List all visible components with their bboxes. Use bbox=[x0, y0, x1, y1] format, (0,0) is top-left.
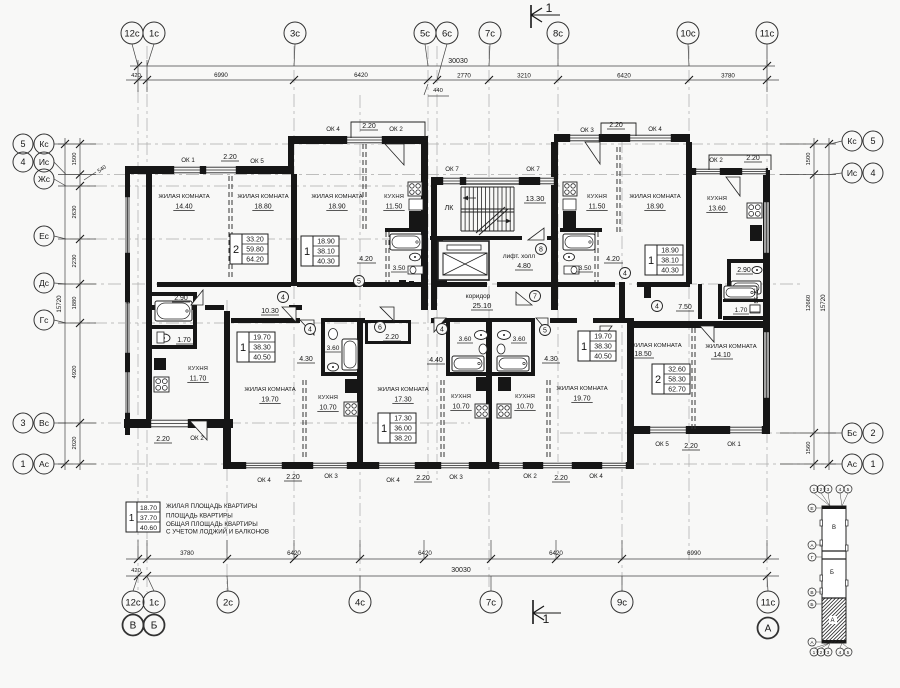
svg-text:4.30: 4.30 bbox=[544, 356, 558, 363]
svg-text:5: 5 bbox=[357, 278, 361, 285]
svg-text:13.60: 13.60 bbox=[708, 206, 725, 213]
wall step 2c bbox=[223, 428, 231, 469]
svg-text:2: 2 bbox=[820, 650, 823, 656]
svg-text:лифт. холл: лифт. холл bbox=[503, 253, 535, 260]
svg-text:6420: 6420 bbox=[418, 550, 432, 557]
window OK2 bottom left bbox=[149, 419, 190, 428]
apartment table 2: 32.60/58.30/62.70 bbox=[652, 364, 664, 394]
upper bath block right (4.20/3.50 mirror) bbox=[560, 228, 623, 282]
svg-text:2.20: 2.20 bbox=[385, 334, 399, 341]
wall 9c interior bbox=[619, 282, 625, 322]
svg-text:5с: 5с bbox=[420, 28, 430, 39]
flat circle 4 bbox=[652, 301, 663, 312]
svg-text:А: А bbox=[810, 640, 814, 646]
svg-text:4: 4 bbox=[839, 650, 842, 656]
svg-text:1500: 1500 bbox=[72, 153, 78, 166]
door apt2 hall-room bbox=[300, 320, 314, 335]
sink WC bbox=[158, 334, 170, 342]
window stair OK7 wide bbox=[464, 177, 521, 185]
svg-text:4920: 4920 bbox=[72, 366, 78, 379]
svg-text:ОК 7: ОК 7 bbox=[445, 166, 459, 173]
wall bottom left section bbox=[124, 419, 233, 428]
svg-text:ОК 2: ОК 2 bbox=[190, 435, 204, 442]
lift shaft bbox=[438, 241, 489, 280]
svg-text:4: 4 bbox=[839, 487, 842, 493]
svg-text:Жс: Жс bbox=[38, 174, 51, 184]
wall 10c bbox=[686, 142, 692, 284]
svg-text:Б: Б bbox=[830, 570, 834, 576]
svg-text:10.70: 10.70 bbox=[516, 404, 533, 411]
window OK1 bottom right bbox=[728, 426, 764, 434]
apt5 bath vertical bbox=[718, 284, 722, 319]
svg-text:4: 4 bbox=[870, 168, 875, 178]
svg-text:1: 1 bbox=[870, 459, 875, 469]
svg-text:13.30: 13.30 bbox=[526, 194, 545, 203]
room labels lower floor bbox=[187, 304, 756, 412]
svg-text:ОК 3: ОК 3 bbox=[449, 474, 463, 481]
svg-text:2: 2 bbox=[655, 374, 661, 386]
svg-text:2.20: 2.20 bbox=[554, 475, 568, 482]
svg-text:1: 1 bbox=[581, 341, 587, 353]
wall bay1 left side bbox=[288, 136, 294, 174]
kitchen 11.50 right fixtures bbox=[563, 182, 577, 231]
room labels upper floor bbox=[158, 194, 727, 310]
wall bay2 top bbox=[554, 134, 690, 142]
svg-text:5: 5 bbox=[847, 650, 850, 656]
apt4 kitchen fixtures bbox=[497, 377, 511, 418]
bathtub 2.90 bbox=[155, 301, 192, 321]
svg-text:15720: 15720 bbox=[56, 295, 63, 313]
wall top right section bbox=[690, 168, 767, 175]
dim 540 note bbox=[84, 172, 96, 180]
svg-text:2.90: 2.90 bbox=[737, 267, 751, 274]
left overall dimension 15720 bbox=[56, 138, 108, 470]
svg-text:19.70: 19.70 bbox=[261, 397, 278, 404]
svg-text:40.50: 40.50 bbox=[594, 353, 612, 360]
svg-text:ЖИЛАЯ КОМНАТА: ЖИЛАЯ КОМНАТА bbox=[244, 387, 295, 393]
apartment table 1: 19.70/38.30/40.50 left bbox=[237, 332, 249, 362]
svg-text:1500: 1500 bbox=[806, 153, 812, 166]
wall 3c interior bbox=[291, 174, 297, 286]
axis circles top bbox=[121, 22, 778, 80]
svg-text:1: 1 bbox=[546, 1, 553, 15]
door right balcony bbox=[726, 177, 740, 196]
axis grid lines bbox=[60, 46, 835, 592]
svg-text:ЖИЛАЯ КОМНАТА: ЖИЛАЯ КОМНАТА bbox=[705, 344, 756, 350]
window OK2 right a bbox=[694, 168, 722, 175]
flat circle 4 bbox=[620, 268, 631, 279]
upper bath block left (4.20/3.50) bbox=[357, 228, 427, 282]
kitchen 13.60 fixtures bbox=[747, 203, 762, 241]
bathtub bbox=[731, 281, 761, 294]
wall stair front bbox=[437, 177, 558, 185]
window labels bottom bbox=[154, 435, 741, 484]
svg-text:ОК 7: ОК 7 bbox=[526, 166, 540, 173]
svg-text:6990: 6990 bbox=[214, 72, 228, 79]
svg-text:4: 4 bbox=[623, 270, 627, 277]
apt3 bath block bbox=[446, 318, 489, 376]
svg-text:Ас: Ас bbox=[39, 459, 50, 469]
svg-text:4.80: 4.80 bbox=[517, 263, 531, 270]
svg-text:5: 5 bbox=[543, 327, 547, 334]
svg-text:Дс: Дс bbox=[39, 278, 50, 288]
svg-text:А: А bbox=[830, 618, 834, 624]
toilet bbox=[408, 266, 423, 274]
svg-text:1: 1 bbox=[813, 487, 816, 493]
svg-text:6: 6 bbox=[378, 324, 382, 331]
svg-text:3780: 3780 bbox=[721, 73, 735, 80]
svg-text:5: 5 bbox=[20, 139, 25, 149]
strip slab lines bbox=[822, 550, 846, 552]
svg-text:38.20: 38.20 bbox=[394, 435, 412, 442]
svg-text:8: 8 bbox=[539, 246, 543, 253]
svg-text:1560: 1560 bbox=[806, 442, 812, 455]
window left loggia a bbox=[125, 195, 130, 255]
svg-text:2.20: 2.20 bbox=[223, 154, 237, 161]
window OK5 bbox=[204, 166, 238, 174]
svg-text:3.50: 3.50 bbox=[393, 265, 406, 272]
svg-text:40.30: 40.30 bbox=[661, 267, 679, 274]
svg-text:ОК 2: ОК 2 bbox=[389, 126, 403, 133]
flat circle 4 bbox=[305, 324, 316, 335]
svg-text:4.30: 4.30 bbox=[299, 356, 313, 363]
svg-text:2020: 2020 bbox=[72, 437, 78, 450]
door frame blobs bbox=[399, 280, 406, 287]
partition kitchen/18.90 right bbox=[616, 147, 618, 235]
strip outline bbox=[822, 506, 846, 643]
svg-text:ЖИЛАЯ КОМНАТА: ЖИЛАЯ КОМНАТА bbox=[158, 194, 209, 200]
apt5 rooms top wall bbox=[627, 321, 767, 328]
flat number circles bbox=[278, 244, 663, 336]
flat circle 4 bbox=[278, 292, 289, 303]
svg-text:1.70: 1.70 bbox=[735, 307, 748, 314]
windows top walls bbox=[172, 134, 768, 189]
svg-text:4: 4 bbox=[308, 326, 312, 333]
svg-text:7с: 7с bbox=[485, 28, 495, 39]
flat circle 4 bbox=[437, 324, 448, 335]
right overall dimension 15720 bbox=[828, 138, 830, 470]
partition room/kitchen apt2 bbox=[302, 380, 304, 460]
wall 6c stair left bbox=[431, 177, 437, 310]
bathtub bbox=[390, 234, 422, 250]
svg-text:33.20: 33.20 bbox=[246, 236, 264, 243]
wall left outer bbox=[125, 169, 130, 435]
svg-text:3.60: 3.60 bbox=[459, 336, 472, 343]
apartment table 1: 19.70/38.30/40.50 right bbox=[578, 331, 590, 361]
svg-text:38.10: 38.10 bbox=[317, 248, 335, 255]
svg-text:А: А bbox=[810, 543, 814, 549]
door apt5 entry bbox=[536, 318, 548, 332]
svg-text:1: 1 bbox=[543, 612, 550, 626]
svg-text:ОК 1: ОК 1 bbox=[727, 441, 741, 448]
svg-text:ОК 4: ОК 4 bbox=[257, 477, 271, 484]
svg-text:Кс: Кс bbox=[847, 136, 857, 146]
wall right outer 11c bbox=[763, 170, 770, 434]
strip hatch A zone bbox=[780, 598, 900, 643]
door apt3 entry bbox=[380, 307, 394, 321]
wall 7c interior bbox=[486, 318, 492, 465]
svg-text:2.90: 2.90 bbox=[174, 295, 188, 302]
svg-text:19.70: 19.70 bbox=[594, 333, 612, 340]
svg-text:ОК 4: ОК 4 bbox=[326, 126, 340, 133]
svg-text:КУХНЯ: КУХНЯ bbox=[384, 194, 404, 200]
stairwell ЛК bbox=[437, 185, 551, 282]
bathtub vertical bbox=[342, 339, 358, 370]
apt5 hall vertical bbox=[698, 284, 702, 319]
svg-text:Ес: Ес bbox=[39, 231, 50, 241]
toilet bbox=[329, 329, 338, 340]
svg-text:19.70: 19.70 bbox=[253, 334, 271, 341]
svg-text:1: 1 bbox=[20, 459, 25, 469]
svg-text:ЖИЛАЯ КОМНАТА: ЖИЛАЯ КОМНАТА bbox=[630, 343, 681, 349]
svg-text:ОК 3: ОК 3 bbox=[580, 127, 594, 134]
wall 4c interior bbox=[357, 318, 363, 465]
door bay1 balcony bbox=[385, 144, 404, 165]
sink bbox=[328, 363, 339, 371]
svg-text:БС "Б": БС "Б" bbox=[754, 288, 760, 303]
svg-text:18.70: 18.70 bbox=[140, 505, 157, 512]
svg-text:ЛК: ЛК bbox=[445, 205, 455, 212]
svg-text:В: В bbox=[130, 621, 137, 632]
svg-text:ЖИЛАЯ КОМНАТА: ЖИЛАЯ КОМНАТА bbox=[311, 194, 362, 200]
partition 18.50/14.10 bbox=[691, 328, 693, 430]
svg-text:ЖИЛАЯ КОМНАТА: ЖИЛАЯ КОМНАТА bbox=[377, 387, 428, 393]
strip circles bottom bbox=[810, 648, 818, 656]
stair window sill bbox=[466, 185, 519, 189]
svg-text:40.30: 40.30 bbox=[317, 258, 335, 265]
stair treads bbox=[460, 187, 462, 231]
svg-text:11с: 11с bbox=[760, 28, 775, 39]
svg-text:В: В bbox=[832, 525, 836, 531]
svg-text:17.30: 17.30 bbox=[394, 397, 411, 404]
svg-text:БС "В": БС "В" bbox=[126, 288, 132, 303]
wall step 9c bbox=[627, 426, 634, 469]
svg-text:ОК 2: ОК 2 bbox=[709, 157, 723, 164]
svg-text:14.10: 14.10 bbox=[713, 352, 730, 359]
svg-text:2.20: 2.20 bbox=[746, 155, 760, 162]
svg-text:15720: 15720 bbox=[820, 294, 827, 312]
svg-text:62.70: 62.70 bbox=[668, 386, 686, 393]
svg-text:1: 1 bbox=[648, 255, 654, 267]
svg-text:Е: Е bbox=[810, 506, 813, 512]
svg-text:4: 4 bbox=[440, 326, 444, 333]
window bay1 bbox=[345, 136, 384, 144]
window labels top bbox=[181, 122, 762, 173]
section mark 1 top bbox=[531, 1, 560, 28]
right section bath 2.90 bbox=[723, 259, 767, 326]
svg-text:38.30: 38.30 bbox=[253, 344, 271, 351]
svg-text:3780: 3780 bbox=[180, 550, 194, 557]
wall 8c stair right bbox=[551, 142, 558, 310]
door apt2 entry bbox=[282, 307, 296, 322]
door loggia bottom left bbox=[190, 421, 207, 440]
window stair OK7 b bbox=[538, 177, 556, 185]
svg-text:58.30: 58.30 bbox=[668, 376, 686, 383]
window right loggia a bbox=[764, 200, 769, 255]
svg-text:В: В bbox=[810, 590, 813, 596]
right segment dimensions bbox=[780, 138, 836, 470]
apt5 bathtub near corridor bbox=[724, 286, 760, 312]
svg-text:11.50: 11.50 bbox=[386, 204, 403, 211]
svg-text:ЖИЛАЯ КОМНАТА: ЖИЛАЯ КОМНАТА bbox=[629, 194, 680, 200]
stove bbox=[154, 377, 169, 392]
svg-text:1: 1 bbox=[240, 342, 246, 354]
flat circle 7 bbox=[530, 291, 541, 302]
corridor lower wall bbox=[148, 305, 196, 310]
balcony outline bay1 bbox=[351, 122, 425, 138]
sink box bbox=[154, 358, 166, 370]
svg-text:2.20: 2.20 bbox=[156, 436, 170, 443]
svg-text:18.90: 18.90 bbox=[328, 204, 345, 211]
svg-text:2: 2 bbox=[233, 244, 239, 256]
building outer walls bbox=[124, 134, 770, 469]
wall top left section bbox=[125, 166, 294, 174]
svg-text:1.70: 1.70 bbox=[177, 337, 191, 344]
door corridor 7 bbox=[516, 292, 532, 305]
svg-text:КУХНЯ: КУХНЯ bbox=[188, 366, 208, 372]
apt1 kitchen 11.70 fixtures bbox=[154, 358, 169, 392]
flat circle 5 bbox=[540, 325, 551, 336]
sink bbox=[475, 331, 488, 340]
vent boxes bbox=[738, 321, 744, 326]
partition room/kitchen apt3 bbox=[440, 380, 442, 460]
svg-text:1с: 1с bbox=[149, 597, 159, 608]
svg-text:6с: 6с bbox=[442, 28, 452, 39]
apt5 toilet bbox=[750, 305, 760, 312]
kitchen 11.50 left fixtures bbox=[408, 182, 423, 231]
top segment dimension line bbox=[126, 79, 779, 81]
svg-text:ОК 2: ОК 2 bbox=[523, 473, 537, 480]
windows bottom walls bbox=[149, 419, 764, 469]
svg-text:1с: 1с bbox=[149, 28, 159, 39]
svg-text:18.50: 18.50 bbox=[634, 351, 651, 358]
partition 14.40/18.80 bbox=[228, 176, 230, 280]
svg-text:3с: 3с bbox=[290, 28, 300, 39]
svg-text:25.10: 25.10 bbox=[473, 301, 492, 310]
svg-text:7.50: 7.50 bbox=[678, 304, 692, 311]
svg-text:40.50: 40.50 bbox=[253, 354, 271, 361]
bottom segment dimension line bbox=[126, 540, 779, 591]
apt2 kitchen fixtures bbox=[344, 379, 358, 416]
svg-text:4.40: 4.40 bbox=[429, 357, 443, 364]
svg-text:Г: Г bbox=[811, 555, 814, 561]
svg-text:440: 440 bbox=[433, 88, 443, 94]
svg-text:ОК 4: ОК 4 bbox=[589, 473, 603, 480]
door room 18.50 bbox=[600, 326, 612, 342]
apt4 bath block bbox=[492, 318, 535, 376]
svg-text:4: 4 bbox=[655, 303, 659, 310]
svg-text:12с: 12с bbox=[124, 28, 140, 39]
svg-text:4: 4 bbox=[20, 157, 25, 167]
svg-text:2770: 2770 bbox=[457, 73, 471, 80]
dim 440 note bbox=[424, 84, 428, 95]
svg-text:С УЧЕТОМ ЛОДЖИЙ И БАЛКОНОВ: С УЧЕТОМ ЛОДЖИЙ И БАЛКОНОВ bbox=[166, 528, 269, 536]
svg-text:2: 2 bbox=[820, 487, 823, 493]
apartment table 2: 33.20/59.80/64.20 bbox=[230, 234, 242, 264]
svg-text:ЖИЛАЯ КОМНАТА: ЖИЛАЯ КОМНАТА bbox=[237, 194, 288, 200]
svg-text:2.20: 2.20 bbox=[286, 474, 300, 481]
window bottom 1 bbox=[244, 462, 284, 469]
flat circle 8 bbox=[536, 244, 547, 255]
svg-text:2230: 2230 bbox=[72, 255, 78, 268]
balcony outline right bbox=[709, 155, 771, 170]
toilet bbox=[564, 266, 579, 274]
svg-text:32.60: 32.60 bbox=[668, 366, 686, 373]
svg-text:2.20: 2.20 bbox=[609, 122, 623, 129]
svg-text:3: 3 bbox=[827, 487, 830, 493]
svg-text:18.90: 18.90 bbox=[317, 238, 335, 245]
svg-text:КУХНЯ: КУХНЯ bbox=[515, 394, 535, 400]
wall bay1 right side / 5c bbox=[421, 136, 428, 310]
svg-text:2: 2 bbox=[870, 428, 875, 438]
svg-text:37.70: 37.70 bbox=[140, 515, 157, 522]
svg-text:40.60: 40.60 bbox=[140, 525, 157, 532]
svg-text:9с: 9с bbox=[617, 597, 627, 608]
lift hall walls bbox=[430, 236, 558, 285]
svg-text:2с: 2с bbox=[223, 597, 233, 608]
svg-text:420: 420 bbox=[131, 568, 141, 574]
svg-text:19.70: 19.70 bbox=[573, 396, 590, 403]
svg-text:7с: 7с bbox=[486, 597, 496, 608]
svg-text:1: 1 bbox=[381, 423, 387, 435]
flat circle 6 bbox=[375, 322, 386, 333]
svg-text:1: 1 bbox=[129, 513, 135, 524]
svg-text:Гс: Гс bbox=[40, 315, 50, 325]
door stair hall bbox=[528, 228, 544, 240]
svg-text:540: 540 bbox=[97, 164, 108, 174]
svg-text:ОК 1: ОК 1 bbox=[181, 157, 195, 164]
svg-text:1: 1 bbox=[813, 650, 816, 656]
wall bay1 top bbox=[288, 136, 427, 144]
svg-text:5: 5 bbox=[847, 487, 850, 493]
svg-text:ЖИЛАЯ КОМНАТА: ЖИЛАЯ КОМНАТА bbox=[556, 386, 607, 392]
svg-text:11.50: 11.50 bbox=[589, 204, 606, 211]
svg-text:10.70: 10.70 bbox=[452, 404, 469, 411]
svg-text:1: 1 bbox=[304, 246, 310, 258]
svg-text:4с: 4с bbox=[355, 597, 365, 608]
door bay2 balcony bbox=[585, 142, 600, 164]
partition 18.90/kitchen bbox=[362, 144, 364, 230]
sink bbox=[410, 253, 421, 261]
axis circles bottom bbox=[122, 591, 779, 639]
svg-text:18.80: 18.80 bbox=[254, 204, 271, 211]
svg-text:ОБЩАЯ ПЛОЩАДЬ КВАРТИРЫ: ОБЩАЯ ПЛОЩАДЬ КВАРТИРЫ bbox=[166, 521, 258, 528]
svg-text:3.50: 3.50 bbox=[579, 265, 592, 272]
corridor lower wall right part bbox=[231, 318, 300, 323]
svg-text:30030: 30030 bbox=[448, 58, 468, 65]
window OK5 bottom right bbox=[648, 426, 688, 434]
apt2 bath block bbox=[321, 318, 360, 376]
svg-text:5: 5 bbox=[870, 136, 875, 146]
legend table bbox=[126, 502, 269, 536]
svg-text:Бс: Бс bbox=[847, 428, 858, 438]
svg-text:2.20: 2.20 bbox=[416, 475, 430, 482]
svg-text:Ис: Ис bbox=[39, 157, 50, 167]
toilet WC bbox=[157, 332, 164, 343]
svg-text:Б: Б bbox=[151, 621, 158, 632]
svg-text:ПЛОЩАДЬ КВАРТИРЫ: ПЛОЩАДЬ КВАРТИРЫ bbox=[166, 513, 233, 520]
window left loggia c bbox=[125, 370, 130, 415]
svg-text:59.80: 59.80 bbox=[246, 246, 264, 253]
window bottom 5 bbox=[497, 462, 525, 469]
window stair OK7 a bbox=[441, 177, 462, 185]
svg-text:18.90: 18.90 bbox=[661, 247, 679, 254]
toilet bbox=[750, 305, 760, 313]
partition room/kitchen apt4 bbox=[546, 380, 548, 460]
svg-text:10.30: 10.30 bbox=[261, 308, 279, 315]
strip circles left bbox=[808, 504, 816, 512]
svg-text:30030: 30030 bbox=[451, 567, 471, 574]
